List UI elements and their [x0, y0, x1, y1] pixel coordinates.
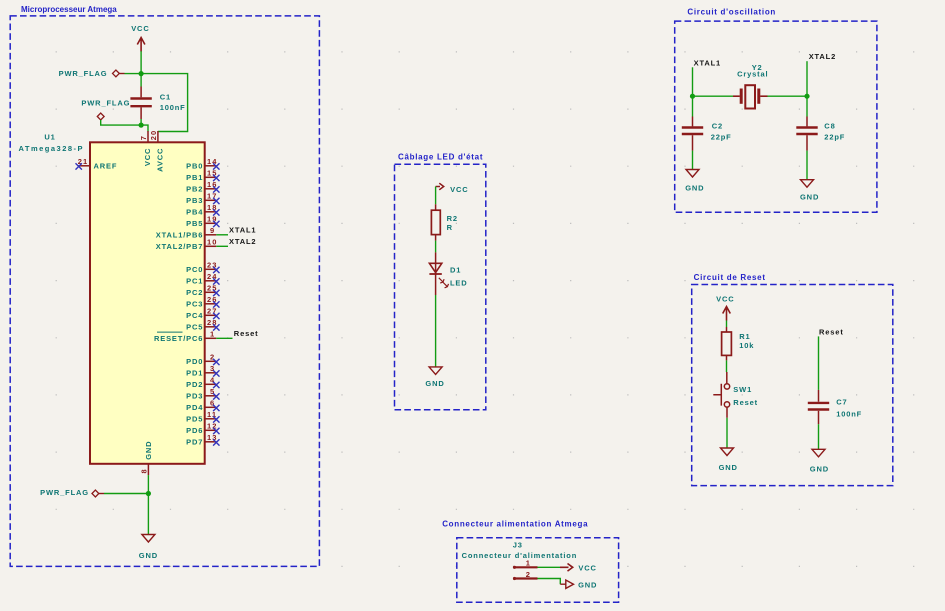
svg-text:27: 27	[207, 306, 218, 315]
label SW1 Reset	[733, 385, 758, 407]
svg-text:100nF: 100nF	[160, 103, 186, 112]
svg-text:PWR_FLAG: PWR_FLAG	[81, 98, 130, 107]
svg-text:GND: GND	[578, 581, 597, 590]
power VCC reset	[716, 294, 734, 320]
label D1 LED	[450, 266, 468, 288]
svg-text:25: 25	[207, 283, 218, 292]
pin 2 PD0	[186, 352, 219, 366]
label C8 22pF	[824, 121, 845, 141]
pin 27 PC4	[186, 306, 219, 320]
wire VCC to R1	[726, 321, 728, 328]
svg-text:PC3: PC3	[186, 299, 203, 308]
svg-text:Circuit d'oscillation: Circuit d'oscillation	[687, 8, 776, 17]
label C7 100nF	[836, 397, 862, 418]
pin 15 PB1	[186, 168, 219, 182]
svg-text:PC4: PC4	[186, 311, 203, 320]
svg-text:21: 21	[78, 157, 89, 166]
pin 5 PD3	[186, 387, 219, 401]
node junction B	[139, 123, 144, 128]
wire crystal to XTAL2	[768, 95, 808, 97]
ground GND C7	[810, 449, 829, 473]
pin 14 PB0	[186, 157, 219, 171]
svg-text:GND: GND	[144, 441, 153, 460]
svg-text:GND: GND	[139, 551, 158, 560]
svg-text:VCC: VCC	[131, 24, 149, 33]
overbar on RESET	[157, 331, 183, 333]
R2 bottom lead	[435, 235, 437, 241]
wire C1 to junction B	[140, 119, 142, 125]
svg-text:XTAL2: XTAL2	[229, 237, 256, 246]
pin 3 PD1	[186, 364, 219, 378]
svg-text:XTAL2: XTAL2	[809, 52, 836, 61]
svg-text:13: 13	[207, 433, 218, 442]
pin 13 PD7	[186, 433, 219, 447]
LED D1	[429, 252, 448, 295]
svg-text:PD2: PD2	[186, 380, 203, 389]
svg-text:XTAL1/PB6: XTAL1/PB6	[156, 230, 204, 239]
svg-text:C1: C1	[160, 93, 171, 102]
svg-text:GND: GND	[800, 193, 819, 202]
section border: Microprocesseur Atmega	[10, 16, 319, 567]
wire Reset to C7	[818, 336, 820, 390]
svg-text:2: 2	[526, 570, 531, 579]
wire VCC down	[140, 51, 142, 73]
svg-text:22pF: 22pF	[711, 133, 732, 142]
wire PWR_FLAG to junction A	[125, 73, 142, 75]
pin 8 GND bottom	[140, 464, 149, 475]
label R1 10k	[739, 332, 754, 350]
svg-text:19: 19	[207, 214, 218, 223]
switch SW1 Reset	[713, 372, 729, 418]
svg-text:D1: D1	[450, 266, 461, 275]
wire GND pin down	[147, 475, 149, 493]
power VCC top	[131, 24, 149, 52]
power VCC LED (rotated right)	[436, 183, 469, 194]
label Y2 Crystal	[737, 63, 768, 79]
pin 28 PC5	[186, 318, 219, 332]
svg-text:VCC: VCC	[578, 564, 596, 573]
section border: Cablage LED	[395, 164, 486, 409]
pin 9 XTAL1/PB6	[156, 226, 217, 240]
svg-text:VCC: VCC	[143, 148, 152, 166]
svg-text:LED: LED	[450, 278, 468, 287]
pin 17 PB3	[186, 191, 219, 205]
svg-text:26: 26	[207, 295, 218, 304]
wire XTAL1 to crystal	[693, 95, 734, 97]
svg-text:PD6: PD6	[186, 426, 203, 435]
label C2 22pF	[711, 121, 732, 141]
ground GND osc right	[800, 180, 819, 202]
pin 21 AREF no-connect	[76, 157, 118, 171]
node junction XTAL1	[690, 94, 695, 99]
capacitor C2	[682, 96, 703, 150]
R1 top lead	[726, 327, 728, 332]
svg-text:7: 7	[139, 135, 148, 140]
svg-text:AREF: AREF	[94, 161, 118, 170]
svg-text:Microprocesseur Atmega: Microprocesseur Atmega	[21, 5, 117, 14]
wire pin 10 to label XTAL2	[216, 245, 228, 247]
wire junction A to AVCC pin	[141, 74, 188, 132]
label C1 100nF	[160, 93, 186, 112]
label R2 R	[447, 214, 458, 232]
pin 7 VCC	[139, 131, 148, 143]
svg-text:Reset: Reset	[733, 398, 758, 407]
wire pin 9 to label XTAL1	[216, 234, 228, 236]
wire pin 1 to VCC	[538, 566, 561, 568]
svg-text:PB2: PB2	[186, 184, 203, 193]
svg-text:U1: U1	[44, 132, 55, 141]
resistor R2	[431, 210, 440, 234]
wire C8 to GND	[806, 151, 808, 180]
ground GND osc left	[685, 170, 704, 193]
svg-text:23: 23	[207, 260, 218, 269]
node junction C	[146, 491, 151, 496]
svg-text:VCC: VCC	[450, 185, 468, 194]
wire C7 to GND	[818, 424, 820, 449]
section border: oscillation	[675, 21, 877, 212]
svg-text:XTAL1: XTAL1	[229, 226, 256, 235]
power PWR_FLAG upper	[59, 69, 125, 78]
pin 1 RESET/PC6	[154, 329, 216, 343]
svg-text:1: 1	[210, 329, 215, 338]
svg-text:VCC: VCC	[716, 294, 734, 303]
section border: connecteur	[457, 538, 619, 603]
wire PWR_FLAG lower to junction B	[101, 120, 141, 125]
ground GND LED	[425, 367, 444, 388]
power PWR_FLAG lower	[81, 98, 130, 120]
R1 bottom lead	[726, 355, 728, 360]
wire R1 to SW1	[726, 360, 728, 372]
svg-text:PC2: PC2	[186, 288, 203, 297]
pin 24 PC1	[186, 272, 219, 286]
wire VCC to R2	[435, 187, 437, 205]
svg-text:GND: GND	[685, 184, 704, 193]
svg-text:12: 12	[207, 421, 218, 430]
pin 12 PD6	[186, 421, 219, 435]
pin 11 PD5	[186, 410, 219, 424]
svg-text:PD7: PD7	[186, 437, 203, 446]
svg-text:PD0: PD0	[186, 357, 203, 366]
wire junction B to VCC pin 7	[141, 125, 148, 131]
IC body U1 ATmega328-P	[90, 142, 205, 464]
svg-text:22pF: 22pF	[824, 133, 845, 142]
svg-text:PD1: PD1	[186, 368, 203, 377]
svg-text:PD4: PD4	[186, 403, 203, 412]
svg-text:SW1: SW1	[733, 385, 752, 394]
svg-text:C7: C7	[836, 397, 847, 406]
svg-text:PWR_FLAG: PWR_FLAG	[59, 69, 108, 78]
node junction A	[139, 71, 144, 76]
svg-text:PB1: PB1	[186, 173, 203, 182]
svg-text:PC0: PC0	[186, 265, 203, 274]
svg-text:16: 16	[207, 180, 218, 189]
svg-text:C2: C2	[712, 121, 723, 130]
svg-text:Connecteur d'alimentation: Connecteur d'alimentation	[462, 551, 578, 560]
power VCC connector (rotated right)	[560, 564, 597, 573]
svg-text:Circuit de Reset: Circuit de Reset	[694, 273, 766, 282]
svg-text:Connecteur alimentation Atmega: Connecteur alimentation Atmega	[442, 519, 588, 528]
svg-text:XTAL2/PB7: XTAL2/PB7	[156, 242, 204, 251]
svg-text:18: 18	[207, 203, 218, 212]
svg-text:PD3: PD3	[186, 391, 203, 400]
svg-text:28: 28	[207, 318, 218, 327]
wire C2 to GND	[692, 151, 694, 170]
svg-text:C8: C8	[824, 121, 835, 130]
svg-text:ATmega328-P: ATmega328-P	[19, 144, 85, 153]
ground GND bottom of U1	[139, 535, 158, 561]
svg-text:14: 14	[207, 157, 218, 166]
capacitor C7	[808, 390, 829, 424]
svg-text:Reset: Reset	[234, 329, 259, 338]
svg-text:R2: R2	[447, 214, 458, 223]
pin 4 PD2	[186, 375, 219, 389]
svg-text:PB5: PB5	[186, 219, 203, 228]
pin 1 J3	[513, 559, 538, 569]
pin 25 PC2	[186, 283, 219, 297]
pin 19 PB5	[186, 214, 219, 228]
pin 26 PC3	[186, 295, 219, 309]
svg-text:PC5: PC5	[186, 322, 203, 331]
svg-text:PB4: PB4	[186, 207, 203, 216]
svg-text:20: 20	[149, 130, 158, 141]
svg-text:PB3: PB3	[186, 196, 203, 205]
capacitor C8	[796, 96, 817, 150]
svg-text:PC1: PC1	[186, 276, 203, 285]
svg-text:PB0: PB0	[186, 161, 203, 170]
wire XTAL1 down	[692, 67, 694, 96]
pin 18 PB4	[186, 203, 219, 217]
svg-text:8: 8	[140, 468, 149, 473]
ground GND connector (rotated right)	[560, 580, 597, 590]
svg-text:Reset: Reset	[819, 327, 844, 336]
svg-text:9: 9	[210, 226, 215, 235]
svg-text:1: 1	[526, 559, 531, 568]
svg-text:GND: GND	[425, 379, 444, 388]
svg-text:XTAL1: XTAL1	[694, 58, 721, 67]
svg-text:PWR_FLAG: PWR_FLAG	[40, 488, 89, 497]
svg-text:15: 15	[207, 168, 218, 177]
svg-text:GND: GND	[719, 463, 738, 472]
svg-text:Câblage LED d'état: Câblage LED d'état	[398, 152, 483, 161]
svg-text:GND: GND	[810, 465, 829, 474]
power PWR_FLAG bottom	[40, 488, 104, 497]
wire junction C to GND	[147, 494, 149, 535]
pin 10 XTAL2/PB7	[156, 237, 218, 251]
svg-text:PD5: PD5	[186, 414, 203, 423]
resistor R1	[722, 332, 732, 355]
svg-text:10k: 10k	[739, 341, 754, 350]
svg-text:Crystal: Crystal	[737, 70, 768, 79]
wire pin 1 to label Reset	[216, 337, 232, 339]
svg-text:J3: J3	[513, 541, 523, 550]
wire D1 to GND	[435, 295, 437, 367]
wire PWR_FLAG bottom to junction C	[104, 493, 148, 495]
wire R2 to D1	[435, 241, 437, 253]
svg-text:100nF: 100nF	[836, 409, 862, 418]
svg-text:10: 10	[207, 237, 218, 246]
pin 6 PD4	[186, 398, 219, 412]
section border: reset	[692, 285, 893, 486]
wire SW1 to GND	[726, 418, 728, 448]
svg-text:RESET/PC6: RESET/PC6	[154, 334, 203, 343]
pin 23 PC0	[186, 260, 219, 274]
pin 2 J3	[513, 570, 538, 580]
ground GND sw	[719, 448, 738, 472]
capacitor C1	[130, 74, 151, 119]
pin 20 AVCC	[149, 130, 158, 143]
svg-text:R: R	[447, 223, 453, 232]
crystal Y2	[733, 85, 768, 108]
R2 top lead	[435, 204, 437, 210]
wire XTAL2 down	[806, 61, 808, 96]
svg-text:AVCC: AVCC	[155, 148, 164, 172]
pin 16 PB2	[186, 180, 219, 194]
wire pin 2 to GND	[538, 579, 561, 585]
svg-text:11: 11	[207, 410, 217, 419]
svg-text:24: 24	[207, 272, 218, 281]
node junction XTAL2	[804, 94, 809, 99]
svg-text:R1: R1	[739, 332, 750, 341]
svg-text:17: 17	[207, 191, 218, 200]
